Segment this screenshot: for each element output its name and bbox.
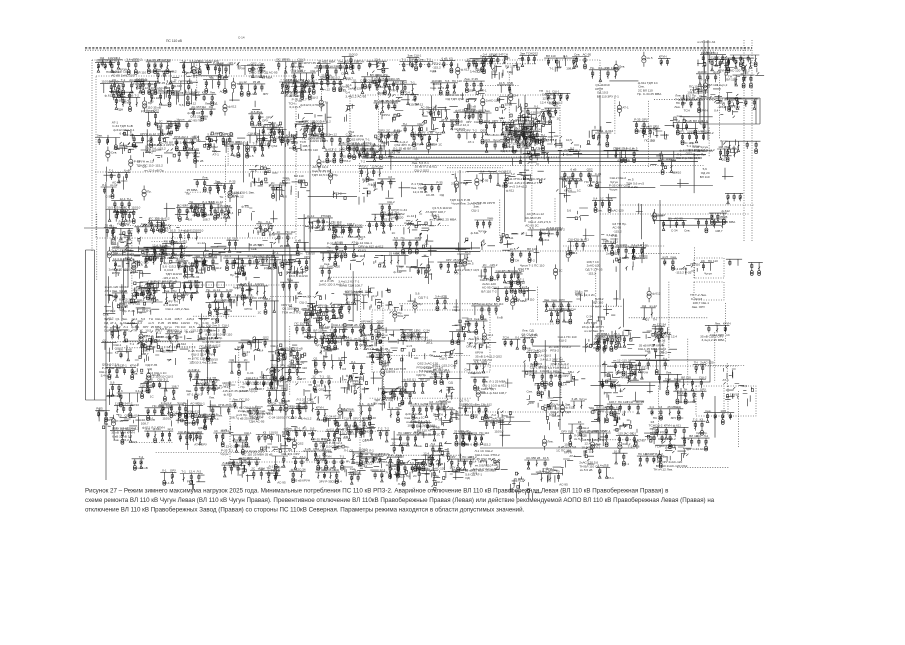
svg-text:КЗ КЗ: КЗ КЗ [358, 248, 366, 252]
svg-text:яч.12: яч.12 [290, 438, 298, 442]
svg-text:1С ПС 110: 1С ПС 110 [556, 449, 571, 453]
svg-text:С-34: С-34 [273, 469, 280, 473]
svg-text:Сев.: Сев. [368, 178, 374, 182]
svg-text:КЗ: КЗ [659, 405, 663, 409]
svg-text:110/10: 110/10 [730, 393, 739, 397]
transformer 185 [129, 155, 141, 170]
svg-text:АТ-1: АТ-1 [260, 142, 267, 146]
svg-text:С-34: С-34 [687, 131, 694, 135]
top switchyard bay B110 [400, 58, 437, 73]
svg-text:ТДН: ТДН [597, 129, 603, 133]
svg-text:5,6: 5,6 [119, 348, 124, 352]
transit corridor dotted companion [200, 165, 705, 167]
bay group B125 [243, 142, 267, 159]
svg-text:5,6: 5,6 [474, 360, 479, 364]
bay group B309 [181, 263, 200, 279]
bay group B222 [559, 175, 582, 193]
svg-text:ПС 110: ПС 110 [124, 133, 134, 137]
bay group B380 [206, 299, 228, 316]
svg-text:ЗРУ: ЗРУ [202, 413, 208, 417]
svg-text:0,4: 0,4 [366, 85, 371, 89]
bay group B173 [673, 119, 713, 135]
upper right switchyard box [700, 98, 760, 124]
svg-text:Т-2: Т-2 [474, 335, 479, 339]
svg-text:АТ-1: АТ-1 [225, 254, 232, 258]
svg-text:ЗРУ: ЗРУ [308, 225, 314, 229]
svg-text:108,7: 108,7 [622, 256, 630, 260]
wiring cluster W7 [237, 62, 266, 73]
svg-text:108,7: 108,7 [141, 352, 149, 356]
svg-text:0,4: 0,4 [514, 94, 519, 98]
svg-text:Р-35: Р-35 [472, 77, 479, 81]
svg-text:ОД ТДН QS2: ОД ТДН QS2 [446, 97, 465, 101]
top switchyard bay B201 [134, 77, 159, 94]
bay group B51 [248, 110, 263, 126]
svg-text:Л-1: Л-1 [633, 366, 638, 370]
sectioning bay B906 [296, 255, 311, 271]
svg-text:ТН: ТН [516, 298, 520, 302]
svg-text:Пр.: Пр. [703, 431, 708, 435]
svg-text:Лев.: Лев. [464, 442, 470, 446]
svg-text:Лев.: Лев. [257, 110, 263, 114]
bay group B337 [414, 268, 430, 278]
feeder tap 53 [252, 101, 260, 110]
bay group B641 [570, 397, 587, 409]
bay group B169 [640, 125, 660, 143]
svg-text:ОРУ: ОРУ [380, 210, 386, 214]
svg-text:0,4: 0,4 [388, 218, 393, 222]
intertie dotted extension [480, 250, 620, 252]
svg-text:Чугун: Чугун [325, 64, 333, 68]
label block T353 [585, 260, 603, 275]
svg-text:ф.611: ф.611 [515, 479, 523, 483]
svg-text:ТСН Зав.: ТСН Зав. [541, 231, 554, 235]
svg-text:Лев.: Лев. [464, 77, 470, 81]
wiring cluster W381 [233, 284, 251, 303]
110kV transit corridor bundle [358, 151, 706, 162]
svg-text:1С: 1С [150, 395, 155, 399]
svg-text:110/10: 110/10 [442, 400, 451, 404]
bay group B132 [304, 120, 331, 138]
svg-text:схеме ремонта ВЛ 110 кВ Чугун: схеме ремонта ВЛ 110 кВ Чугун Левая (ВЛ … [85, 497, 715, 504]
bay group B687 [430, 442, 451, 457]
top switchyard bay B107 [317, 60, 335, 78]
bay group B599 [175, 409, 200, 425]
svg-text:СШ-1: СШ-1 [137, 298, 145, 302]
svg-text:5,6: 5,6 [359, 402, 364, 406]
wiring cluster W463 [319, 319, 352, 344]
wiring cluster W269 [404, 221, 427, 235]
feeder tap 576 [647, 382, 653, 393]
bay group B28 [708, 55, 732, 72]
feeder tap 344 [455, 243, 466, 252]
wiring cluster W113 [145, 148, 175, 163]
svg-text:ОРУ: ОРУ [559, 298, 565, 302]
label block T176 [676, 149, 708, 161]
bay group B393 [343, 290, 363, 304]
svg-text:яч.12: яч.12 [213, 288, 221, 292]
dashed enclosure D93 [230, 382, 360, 462]
wiring cluster W410 [452, 308, 471, 332]
svg-text:Зав.: Зав. [236, 250, 242, 254]
bay group B433 [101, 339, 117, 350]
svg-text:6 кВ: 6 кВ [121, 289, 127, 293]
svg-text:QS2: QS2 [484, 119, 490, 123]
svg-text:Л-1: Л-1 [122, 364, 127, 368]
bay group B144 [378, 128, 409, 144]
svg-text:Т-1: Т-1 [500, 119, 505, 123]
wiring cluster W570 [601, 363, 639, 383]
bay group B118 [175, 147, 203, 164]
wiring cluster W168 [650, 151, 666, 168]
feeder tap 495 [582, 339, 590, 353]
svg-text:яч.5: яч.5 [510, 247, 516, 251]
dense left label band [104, 317, 218, 333]
svg-text:ЗРУ: ЗРУ [450, 466, 456, 470]
svg-text:Сев.: Сев. [474, 317, 480, 321]
wiring cluster W456 [268, 344, 287, 366]
svg-text:Л-1: Л-1 [165, 481, 170, 485]
svg-text:10,5: 10,5 [614, 449, 620, 453]
label block T801 [702, 51, 714, 55]
svg-text:ОРУ: ОРУ [406, 431, 412, 435]
bay group B133 [320, 133, 353, 151]
label block T642 [549, 403, 571, 418]
svg-text:С-34: С-34 [356, 430, 363, 434]
svg-text:6 кВ ПС 110: 6 кВ ПС 110 [301, 148, 318, 152]
svg-text:Пр. С-34 25 МВА: Пр. С-34 25 МВА [637, 92, 662, 96]
bay group B448 [199, 345, 218, 362]
svg-text:ВЛ 110: ВЛ 110 [700, 175, 710, 179]
wiring cluster W159 [555, 138, 591, 157]
bottom feeder bay B706 [412, 455, 436, 471]
label block T490 [549, 345, 572, 353]
wiring cluster W685 [428, 449, 450, 471]
svg-text:Р-35: Р-35 [159, 81, 166, 85]
wiring cluster W299 [161, 255, 193, 271]
svg-text:2хАС-120: 2хАС-120 [610, 208, 624, 212]
bay group B331 [393, 236, 423, 254]
bay group B359 [661, 255, 677, 270]
svg-text:Л-2: Л-2 [379, 332, 384, 336]
transformer 590 [111, 415, 123, 430]
svg-text:Р-35: Р-35 [634, 118, 641, 122]
svg-text:СШ-1: СШ-1 [471, 209, 479, 213]
svg-text:ф.612: ф.612 [191, 409, 200, 413]
bay group B675 [349, 448, 373, 466]
svg-text:Пр.: Пр. [206, 288, 211, 292]
svg-text:0,4: 0,4 [406, 91, 411, 95]
feeder tap 677 [332, 441, 337, 450]
svg-text:СШ-2: СШ-2 [699, 375, 707, 379]
svg-text:С-34: С-34 [525, 143, 532, 147]
svg-text:Т-1: Т-1 [445, 368, 450, 372]
wiring cluster W676 [345, 454, 379, 476]
bay group B352 [567, 238, 589, 256]
svg-text:КРУН: КРУН [302, 479, 310, 483]
label block T665 [220, 445, 244, 457]
feeder tap 429 [107, 348, 113, 362]
svg-text:ТН: ТН [219, 195, 223, 199]
svg-text:6 кВ: 6 кВ [142, 466, 148, 470]
label block T802 [709, 57, 715, 61]
wiring cluster W72 [420, 110, 441, 131]
transformer 253 [224, 207, 234, 222]
svg-text:РПЗ-2: РПЗ-2 [333, 191, 342, 195]
bay group B183 [108, 168, 131, 184]
transformer 216 [475, 175, 489, 190]
svg-text:ф.611: ф.611 [326, 427, 334, 431]
svg-text:Пр.: Пр. [230, 273, 235, 277]
main dashed enclosure left edge [91, 60, 93, 252]
svg-text:Пр.: Пр. [418, 302, 423, 306]
svg-text:РПЗ-2: РПЗ-2 [179, 245, 188, 249]
bottom feeder bay B707 [449, 455, 477, 472]
wiring cluster W534 [269, 368, 305, 391]
svg-text:ТСН: ТСН [603, 240, 609, 244]
svg-text:Зав.: Зав. [411, 419, 417, 423]
svg-text:АТ-1: АТ-1 [608, 476, 615, 480]
svg-text:1С: 1С [159, 124, 164, 128]
svg-text:Т-1: Т-1 [410, 80, 415, 84]
svg-text:ЗРУ: ЗРУ [430, 143, 436, 147]
label block T602 [250, 411, 271, 419]
breaker cabinet row [140, 282, 225, 288]
bottom feeder bay B600 [110, 427, 139, 445]
svg-text:ПС 110: ПС 110 [285, 230, 295, 234]
svg-text:110/10: 110/10 [209, 357, 218, 361]
svg-text:1С: 1С [557, 117, 562, 121]
svg-text:Лев.: Лев. [674, 105, 680, 109]
svg-text:5,6: 5,6 [160, 243, 165, 247]
label block T408 [415, 292, 428, 300]
svg-text:Л-2 2С: Л-2 2С [628, 185, 638, 189]
bay group B616 [333, 417, 374, 434]
svg-text:6 кВ: 6 кВ [572, 397, 578, 401]
bay group B191 [214, 180, 239, 198]
svg-text:Сев.: Сев. [293, 79, 299, 83]
svg-text:ф.611: ф.611 [471, 231, 479, 235]
svg-text:35 кВ: 35 кВ [196, 159, 203, 163]
label block T70 [412, 98, 420, 106]
svg-text:ЗРУ: ЗРУ [263, 92, 269, 96]
svg-text:Л-1: Л-1 [197, 67, 202, 71]
svg-text:108,7: 108,7 [171, 384, 179, 388]
svg-text:Пр.: Пр. [327, 245, 332, 249]
wiring cluster W286 [601, 233, 618, 251]
svg-text:10,5: 10,5 [145, 329, 151, 333]
bay group B1 [98, 56, 127, 71]
svg-text:110/10: 110/10 [216, 299, 225, 303]
wiring cluster W690 [425, 442, 451, 460]
label block T328 [327, 242, 344, 250]
bay group B47 [184, 91, 218, 106]
svg-text:Лев.: Лев. [529, 373, 535, 377]
ps cluster bay B903 [503, 120, 536, 136]
svg-text:ф.611: ф.611 [506, 188, 515, 192]
svg-text:6 кВ: 6 кВ [321, 438, 327, 442]
bay group B537 [312, 356, 345, 374]
bay group B712 [637, 452, 664, 468]
svg-text:Р-35: Р-35 [436, 180, 443, 184]
feeder tap 583 [678, 388, 686, 403]
svg-text:108,7: 108,7 [347, 222, 355, 226]
wiring cluster W660 [187, 475, 205, 490]
bay group B525 [228, 358, 253, 375]
svg-text:35 кВ: 35 кВ [347, 300, 354, 304]
label block T106 [112, 120, 135, 132]
wiring cluster W388 [303, 291, 334, 311]
label block T411 [480, 278, 500, 293]
svg-text:6 кВ: 6 кВ [284, 399, 290, 403]
cabin bay B5300 [700, 259, 718, 276]
svg-text:35 кВ: 35 кВ [684, 119, 691, 123]
svg-text:-115,2: -115,2 [227, 61, 236, 65]
svg-text:Лев.: Лев. [524, 168, 530, 172]
wiring cluster W542 [378, 387, 411, 408]
cabin bay B5301 [726, 259, 742, 266]
bay group B259 [275, 230, 296, 248]
svg-text:Р-35: Р-35 [544, 404, 551, 408]
svg-text:АТ-1: АТ-1 [279, 261, 286, 265]
bay group B480 [465, 317, 487, 334]
svg-text:Рисунок 27 – Режим зимнего мак: Рисунок 27 – Режим зимнего максимума наг… [85, 488, 669, 495]
svg-text:Л-1: Л-1 [546, 89, 551, 93]
bay group B659 [180, 470, 203, 482]
svg-text:Чугун: Чугун [177, 118, 185, 122]
wiring cluster W119 [211, 132, 245, 151]
bay group B686 [422, 451, 443, 465]
wiring cluster W438 [138, 339, 164, 358]
bay group B592 [159, 401, 185, 417]
svg-text:Р-35: Р-35 [316, 458, 323, 462]
bay group B97 [679, 96, 708, 113]
bay group B184 [101, 183, 118, 198]
wiring cluster W401 [368, 288, 393, 310]
svg-text:ТН: ТН [395, 210, 399, 214]
svg-text:Л-1: Л-1 [505, 56, 510, 60]
svg-text:25 МВА: 25 МВА [325, 60, 336, 64]
svg-text:ф.612: ф.612 [392, 99, 401, 103]
label block T319 [286, 270, 308, 282]
bay group B454 [294, 322, 316, 339]
svg-text:Сев.: Сев. [350, 467, 356, 471]
svg-text:35 кВ: 35 кВ [291, 141, 298, 145]
label block T274 [450, 198, 481, 206]
bottom feeder bay B514 [462, 402, 492, 419]
lower dotted tie y412 [465, 411, 635, 413]
svg-text:110/10: 110/10 [400, 442, 409, 446]
transformer 426 [647, 287, 661, 302]
bay group B135 [350, 142, 386, 160]
svg-text:1С: 1С [139, 329, 144, 333]
bay group B289 [660, 216, 690, 232]
bay group B11 [314, 64, 353, 81]
svg-text:108,7: 108,7 [125, 256, 133, 260]
transformer 26 [642, 52, 653, 67]
label block T71 [430, 82, 448, 90]
feeder tap 316 [235, 267, 241, 283]
label block T271 [430, 206, 458, 221]
svg-text:ТН: ТН [117, 222, 121, 226]
label block T489 [537, 350, 563, 362]
svg-text:-115,2: -115,2 [162, 226, 171, 230]
wiring cluster W101 [726, 93, 743, 106]
svg-text:яч.5: яч.5 [342, 64, 348, 68]
svg-text:ТДН: ТДН [614, 146, 620, 150]
svg-text:110/10: 110/10 [362, 141, 371, 145]
bottom feeder bay B509 [339, 407, 355, 419]
feeder tap 577 [633, 392, 644, 401]
svg-text:яч.5: яч.5 [524, 336, 530, 340]
wiring cluster W470 [359, 329, 383, 352]
svg-text:АТ-1: АТ-1 [622, 106, 629, 110]
svg-text:ТДН: ТДН [200, 105, 206, 109]
svg-text:ЗРУ: ЗРУ [403, 461, 409, 465]
wiring cluster W650 [613, 423, 631, 432]
svg-text:яч.12: яч.12 [303, 295, 311, 299]
svg-text:Сев.: Сев. [416, 444, 422, 448]
svg-text:яч.5: яч.5 [574, 437, 580, 441]
bay group B177 [725, 141, 761, 153]
svg-text:ПС 110 25 МВА 35 кВ: ПС 110 25 МВА 35 кВ [242, 453, 273, 457]
bay group B278 [528, 226, 563, 242]
svg-text:5,6: 5,6 [179, 103, 184, 107]
svg-text:12,4: 12,4 [120, 197, 126, 201]
svg-text:ф.612: ф.612 [722, 209, 731, 213]
label block T252 [185, 206, 204, 214]
wiring cluster W155 [531, 138, 562, 163]
bay group B466 [360, 320, 388, 337]
top switchyard bay B209 [431, 79, 463, 95]
transformer 100 [703, 79, 718, 94]
label block T427 [692, 301, 710, 309]
svg-text:Сев.: Сев. [111, 151, 117, 155]
svg-text:СШ-2: СШ-2 [710, 333, 718, 337]
svg-text:С-34: С-34 [693, 447, 700, 451]
svg-text:Чугун: Чугун [579, 397, 587, 401]
bay group B21 [572, 53, 591, 69]
svg-text:Т-2: Т-2 [693, 417, 698, 421]
svg-text:ЗРУ: ЗРУ [318, 304, 324, 308]
feeder tap 449 [253, 337, 264, 349]
svg-text:АТ-1: АТ-1 [569, 454, 576, 458]
svg-text:ПС 110: ПС 110 [200, 345, 210, 349]
svg-text:Р-35: Р-35 [240, 282, 247, 286]
transformer 186 [142, 186, 152, 201]
svg-text:2С: 2С [251, 467, 256, 471]
svg-text:ОД: ОД [440, 193, 444, 197]
svg-text:Л-2: Л-2 [212, 321, 217, 325]
transformer 713 [658, 450, 669, 465]
svg-text:ТН: ТН [429, 354, 433, 358]
wiring cluster W67 [383, 88, 410, 104]
bay group B225 [587, 172, 601, 188]
label block T192 [186, 188, 199, 196]
svg-text:ВЛ 110: ВЛ 110 [294, 174, 304, 178]
svg-text:Зав.: Зав. [97, 134, 103, 138]
svg-text:ф.612 0,4 ПС 110: ф.612 0,4 ПС 110 [300, 103, 325, 107]
bay group B405 [434, 295, 449, 311]
wiring cluster W338 [417, 255, 434, 280]
svg-text:РПЗ-2: РПЗ-2 [141, 286, 150, 290]
label block T640 [574, 426, 599, 441]
bay group B354 [615, 243, 645, 260]
bay group B572 [612, 359, 637, 376]
svg-text:Л-1: Л-1 [680, 129, 685, 133]
svg-text:ф.612: ф.612 [652, 291, 661, 295]
svg-text:ОРУ: ОРУ [170, 468, 176, 472]
